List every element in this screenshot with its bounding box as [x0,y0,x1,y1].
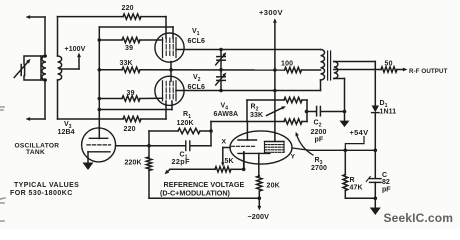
wire R1 row [149,130,178,132]
wire V2 plate lead [170,70,172,81]
arrow +100V up [77,53,81,58]
wire secondary bottom down [57,80,59,119]
tube V3 12B4 envelope [82,128,116,162]
node 5K right [242,168,246,172]
wire V3 plate row [116,145,185,147]
variable capacitor tank box [24,56,41,80]
svg-text:47K: 47K [350,184,363,191]
wire box top edge [247,99,284,101]
variable capacitor plates [20,65,22,76]
tube V3 cathode [88,151,110,153]
capacitor C 82pF [370,178,382,180]
arrow 5K wiper [221,162,224,166]
tube V3 grid [87,144,111,146]
wire 47K top [344,150,346,174]
ground V3 [83,163,94,171]
svg-text:2200: 2200 [311,129,327,136]
wire V4 pentode grid down [243,152,245,168]
svg-text:+300V: +300V [259,8,283,17]
resistor 220K [146,157,151,171]
wire T2 secondary top to D1 column [334,61,376,63]
svg-text:2700: 2700 [311,165,327,172]
tube V2 internals [162,81,164,101]
node ground right junction [374,197,378,201]
wire V1 cathode to rail D [170,62,172,70]
svg-text:220K: 220K [125,160,142,167]
svg-text:6CL6: 6CL6 [188,84,206,91]
node D1 bottom rail [374,149,378,153]
tube V4 pentode plate [265,141,285,143]
ground symbol mid [344,112,346,121]
wire Y rail [292,148,375,150]
svg-text:pF: pF [315,137,324,144]
svg-text:FOR 530-1800KC: FOR 530-1800KC [10,190,73,197]
node tank top junction [43,54,47,58]
svg-text:50: 50 [385,60,393,67]
wire 5K to V4 [243,152,245,169]
wire 20K top [258,175,261,177]
resistor 47K [343,175,348,191]
resistor 220 top [123,14,141,19]
wire rail D [99,69,122,71]
svg-text:12B4: 12B4 [58,129,75,136]
wire V2 plate out [176,90,321,92]
svg-text:pF: pF [382,186,391,193]
node bus-E [98,97,102,101]
diode D1 1N11 [372,106,379,113]
svg-text:220: 220 [122,5,134,12]
wire -200V arrow [258,198,260,207]
wire C bottom [374,182,376,207]
node bus-C [98,38,102,42]
node V1-V2 junction [169,68,173,72]
svg-text:33K: 33K [250,112,263,119]
svg-text:SeekIC.com: SeekIC.com [384,211,454,225]
tube V4 triode grid [232,145,257,147]
node R1 right [209,129,213,133]
svg-text:+54V: +54V [350,128,369,137]
wire V1 plate out [176,49,321,51]
resistor 20K [257,176,262,191]
wire RF output arrow [397,69,403,71]
wire T2 secondary bottom [334,78,345,80]
wire rail F [99,109,172,111]
resistor R2 33K zigzag [284,97,302,102]
resistor 39 lower [122,96,140,101]
trimmer capacitor CT1 [220,50,222,56]
wire rail E grid V2 [99,98,122,100]
resistor R3 2700 zigzag [284,119,302,124]
node C2 left junction [305,110,309,114]
wire 20K bottom [258,191,260,198]
wire T2 secondary mid to 50 [334,69,381,71]
wire +300V vertical [274,21,276,133]
wire bottom-left lead with arrow [44,80,46,119]
scan artifact marks [0,107,5,221]
transformer T2 secondary [334,62,338,79]
tube V2 6CL6 envelope [155,76,184,105]
variable capacitor arrow [14,61,28,77]
resistor R1 120K [178,128,200,133]
svg-text:20K: 20K [267,183,280,190]
svg-text:220: 220 [124,126,136,133]
node +300V rail V2 [273,89,277,93]
wire rail H from secondary [58,118,124,120]
svg-text:Y: Y [291,154,296,161]
tube V4 6AW8A envelope [230,131,292,164]
capacitor C1 22pF [185,141,187,151]
node CT1 top [219,48,223,52]
wire box right edge [306,100,308,122]
svg-text:TANK: TANK [26,149,45,156]
svg-text:TYPICAL VALUES: TYPICAL VALUES [14,182,79,189]
resistor 100 [285,67,302,72]
wire rail C grid V1 [99,39,122,41]
node CT2 bottom [219,89,223,93]
wire 220K branch [148,131,150,157]
tube V1 6CL6 envelope [155,33,184,62]
wire top-left lead from tank top with arrow [44,17,46,56]
svg-text:6AW8A: 6AW8A [214,111,239,118]
trimmer capacitor CT2 [220,70,222,76]
arrow R3 pointer [297,135,314,156]
transformer T1 secondary winding [58,56,62,80]
svg-text:6CL6: 6CL6 [188,38,206,45]
ground symbol right [370,208,381,216]
wire vertical 211 [210,122,212,146]
arrow +300V [273,18,277,23]
wire box bottom edge [211,121,284,123]
node 220K top [147,144,151,148]
svg-text:22pF: 22pF [172,157,191,166]
resistor 5K [215,167,231,172]
arrow R2 pointer [267,108,284,116]
wire bottom rail [149,197,259,199]
arrow reference down-left [167,169,171,172]
resistor 33K [122,67,140,72]
tube V4 cathode [238,152,270,154]
node 47K top [344,149,348,153]
node bus-D [98,68,102,72]
wire rail A [58,16,124,18]
svg-text:X: X [222,139,227,146]
svg-text:R-F OUTPUT: R-F OUTPUT [409,68,448,75]
node CT1 bottom [219,68,223,72]
wire +54V stub [345,137,364,151]
wire +100V tap [60,68,80,70]
svg-text:+100V: +100V [65,46,86,53]
wire 100 to primary [302,69,321,71]
tube V4 pentode grids [265,145,285,153]
node bus-F [98,108,102,112]
wire reference row [170,168,215,170]
wire box left edge [246,100,248,122]
svg-text:C: C [382,172,387,179]
svg-text:(D-C+MODULATION): (D-C+MODULATION) [160,188,231,197]
tube V4 triode plate [238,139,257,141]
svg-text:33K: 33K [120,60,133,67]
node +300V rail D [273,68,277,72]
resistor 50 [381,67,397,72]
transformer T1 primary winding [41,55,46,57]
svg-text:39: 39 [125,45,133,52]
tube V3 plate [89,137,107,139]
wire X lead [223,147,230,149]
resistor 39 upper [122,37,140,42]
svg-text:5K: 5K [225,158,234,165]
wire T2 primary bottom [320,80,322,91]
wire secondary top to 220 rail [57,17,59,56]
svg-text:−200V: −200V [248,212,270,221]
tube V1 internals [162,38,164,58]
wire C top [374,150,376,178]
node tank bottom junction [43,78,47,82]
svg-text:82: 82 [382,179,390,186]
capacitor C2 [307,111,315,113]
wire 47K bottom [344,191,346,199]
resistor 220 lower [123,116,141,121]
node -200V junction [258,196,262,200]
transformer T2 core [327,51,329,80]
transformer T2 primary [321,50,325,81]
wire bus vertical [98,27,100,139]
svg-text:100: 100 [281,61,293,68]
node C2 ground junction [343,110,347,114]
svg-text:1N11: 1N11 [380,109,397,116]
wire rail B [99,26,173,28]
svg-text:39: 39 [127,90,135,97]
svg-text:120K: 120K [177,120,194,127]
svg-text:R: R [350,177,355,184]
